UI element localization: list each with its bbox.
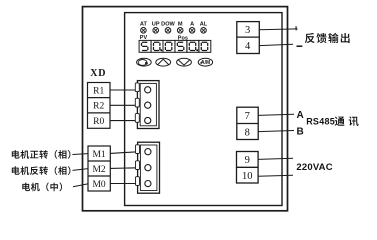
svg-text:M0: M0 — [92, 180, 105, 190]
svg-text:R2: R2 — [93, 102, 104, 112]
svg-text:A: A — [297, 110, 304, 121]
outer instrument case box — [83, 7, 288, 211]
svg-text:9: 9 — [245, 155, 250, 166]
svg-text:3: 3 — [245, 25, 250, 36]
svg-text:R1: R1 — [93, 86, 104, 96]
terminal box 7/8 — [237, 107, 258, 139]
minus polarity mark — [297, 45, 303, 47]
label 电机（中） motor (neutral) — [22, 183, 62, 192]
svg-text:7: 7 — [245, 111, 250, 122]
label 反馈输出 (feedback output) — [305, 33, 350, 43]
wire M2 to block — [110, 167, 137, 170]
label 通讯 (communication) — [335, 116, 359, 126]
wire R1 to block — [110, 89, 137, 91]
svg-text:UP: UP — [152, 21, 160, 27]
indicator lamp UP — [152, 21, 160, 33]
wire terminal 8 to B — [258, 131, 294, 132]
terminal block R (valve motor drive) — [135, 81, 159, 129]
wire R0 to block — [110, 120, 137, 122]
terminal block M (motor) — [136, 142, 160, 193]
inner front-panel box — [125, 13, 282, 206]
svg-text:AL: AL — [200, 21, 208, 27]
svg-text:220VAC: 220VAC — [296, 162, 332, 173]
label 电机正转（相） motor forward (phase) — [12, 150, 71, 159]
svg-text:AT: AT — [140, 21, 148, 27]
indicator lamp AL — [200, 21, 208, 33]
button UP (oval with up chevron) — [156, 58, 171, 66]
wire label to M2 — [73, 169, 89, 171]
terminal strip M1/M2/M0 — [88, 146, 110, 191]
wire terminal 7 to A — [258, 114, 294, 115]
svg-text:R0: R0 — [93, 117, 104, 127]
indicator lamp M — [177, 21, 183, 33]
terminal box 3/4 — [237, 22, 259, 54]
button DOWN (oval with down chevron) — [177, 58, 192, 66]
button A/M (oval with A/M text) — [198, 58, 212, 66]
svg-text:M1: M1 — [92, 150, 105, 160]
svg-text:8: 8 — [245, 127, 250, 138]
svg-text:A: A — [190, 21, 194, 27]
wire label to M0 — [73, 184, 88, 187]
svg-text:4: 4 — [245, 41, 251, 52]
plus polarity mark — [295, 26, 297, 30]
svg-text:M2: M2 — [92, 165, 105, 175]
svg-text:M: M — [178, 21, 183, 27]
wire label to M1 — [73, 153, 89, 156]
indicator lamp DOW — [161, 21, 175, 33]
terminal box 9/10 — [237, 152, 259, 184]
wire M0 to block — [110, 183, 137, 185]
indicator lamp AT — [140, 21, 148, 33]
terminal strip R1/R2/R0 — [88, 83, 111, 129]
svg-text:DOW: DOW — [161, 21, 175, 27]
PV display window (6-digit) — [139, 40, 211, 52]
wire terminal 10 — [258, 175, 293, 176]
svg-text:10: 10 — [242, 171, 253, 182]
label 电机反转（相） motor reverse (phase) — [12, 166, 71, 175]
button SET (oval with symbol) — [137, 58, 152, 66]
svg-text:B: B — [297, 127, 304, 138]
indicator lamp A — [189, 21, 195, 33]
wire terminal 3 to + — [259, 28, 297, 31]
svg-text:XD: XD — [90, 68, 106, 79]
wire terminal 4 to - — [259, 44, 293, 45]
svg-text:RS485: RS485 — [306, 117, 335, 127]
wire M1 to block — [110, 152, 137, 154]
wire R2 to block — [110, 104, 137, 106]
wire terminal 9 — [258, 158, 293, 159]
